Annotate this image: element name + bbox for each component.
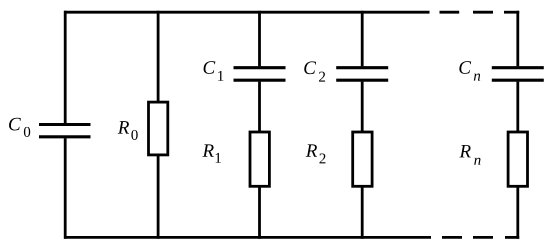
wire Cn branch upper segment [516, 11, 519, 67]
wire C0 branch upper segment [64, 11, 67, 123]
wire bottom bus solid segment [64, 236, 431, 239]
wire R0 branch upper segment [157, 11, 160, 102]
wire R1 branch lower segment [258, 186, 261, 239]
label C1 [204, 61, 224, 81]
resistor R1 [250, 132, 269, 186]
label R2 [306, 144, 326, 163]
wire R2 branch lower segment [361, 186, 364, 239]
label Rn [459, 145, 480, 165]
capacitor C1 [234, 68, 286, 81]
wire C1-R1 middle segment [258, 82, 261, 132]
wire Rn branch lower segment [516, 186, 519, 239]
wire bottom bus dashed continuation [442, 236, 519, 239]
resistor Rn [508, 132, 527, 186]
wire C2 branch upper segment [361, 11, 364, 67]
wire C0 branch lower segment [64, 138, 67, 239]
resistor R0 [149, 102, 168, 155]
resistor R2 [353, 132, 372, 186]
capacitor Cn [492, 68, 544, 81]
capacitor C0 [39, 125, 91, 137]
label C0 [9, 118, 30, 137]
wire C2-R2 middle segment [361, 82, 364, 132]
label R0 [118, 121, 138, 140]
wire R0 branch lower segment [157, 155, 160, 239]
label R1 [202, 144, 221, 162]
label Cn [459, 61, 480, 80]
label C2 [304, 61, 325, 81]
wire C1 branch upper segment [258, 11, 261, 67]
wire top bus solid segment [64, 11, 429, 14]
wire top bus dashed continuation [440, 11, 520, 14]
capacitor C2 [336, 68, 388, 81]
wire Cn-Rn middle segment [516, 82, 519, 132]
